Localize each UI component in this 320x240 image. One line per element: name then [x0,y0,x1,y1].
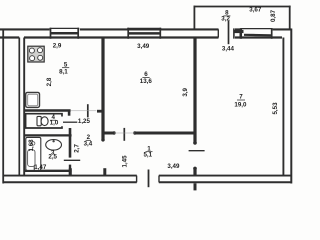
wall A kitchen/room6 divider [101,39,104,141]
bottom wall top line [3,175,291,177]
wall B end stub [68,111,71,116]
wall C room6 south left stub [103,132,114,135]
WC door dash [63,121,77,123]
room6 door tick [123,128,125,141]
right wall outer line [290,29,292,184]
left wall inner double lines [18,38,20,177]
stove [28,46,44,62]
balcony door tick [228,21,230,44]
svg-text:3,9: 3,9 [182,87,189,96]
svg-text:2,9: 2,9 [53,43,62,50]
svg-text:1,47: 1,47 [34,164,47,171]
wall D lower segment [193,168,196,177]
toilet [37,116,41,125]
svg-text:5,1: 5,1 [143,152,152,159]
bathroom door dash [64,159,80,161]
wall C room6 south main [135,132,195,135]
balcony left wall [193,6,195,29]
room7 window [241,28,272,39]
bathtub [26,137,41,170]
wall D gap end caps [193,141,197,145]
svg-text:8,1: 8,1 [59,69,68,76]
svg-text:1,0: 1,0 [50,120,59,127]
bathroom right wall upper segment [69,128,72,158]
bottom wall stub at wall A line [103,168,106,175]
room7 door dash [189,150,205,152]
svg-text:1,45: 1,45 [121,155,128,168]
svg-text:6: 6 [144,71,148,78]
svg-text:3,4: 3,4 [84,140,93,147]
svg-text:1,25: 1,25 [78,118,91,125]
bathroom bottom wall [24,170,71,172]
top wall inner line [0,36,282,38]
wall end caps at entrance door [136,176,138,183]
kitchen window [51,28,79,39]
svg-text:2,5: 2,5 [48,154,57,161]
svg-text:13,6: 13,6 [140,78,153,85]
dimension tick at 1,47 [33,166,35,171]
bottom wall bottom line [3,181,293,183]
kitchen door tick [87,104,89,117]
wall B kitchen south wall [24,109,70,112]
svg-text:3,67: 3,67 [249,7,262,14]
balcony right wall [289,6,291,29]
bottom wall stub at corridor [69,168,72,175]
wall A left stub [97,110,103,113]
balcony top wall [194,6,291,8]
wall piece between balcony door and window [234,28,240,38]
svg-text:19,0: 19,0 [234,102,247,109]
svg-text:2,8: 2,8 [46,77,53,86]
svg-text:3,49: 3,49 [137,43,150,50]
washbasin [46,140,62,151]
svg-text:3,2: 3,2 [221,15,230,22]
room6 window [128,28,160,39]
svg-text:0,87: 0,87 [270,9,277,22]
room6 door opening line [114,132,135,134]
top wall outer line [0,28,291,30]
bathroom right wall lower segment [69,165,71,176]
svg-text:2,7: 2,7 [74,144,81,153]
svg-text:1,68: 1,68 [28,139,35,152]
svg-text:7: 7 [239,94,243,101]
wall D rooms 6,1 / 7 divider upper [193,39,196,144]
right wall inner line [282,38,284,176]
bathroom top wall [24,134,71,136]
WC box walls [26,114,62,128]
wall A bottom end cap [101,138,104,141]
wall end cap at balcony door [217,29,219,37]
entrance door tick [148,170,150,188]
left wall outer line [2,29,4,184]
svg-text:5,53: 5,53 [272,102,279,115]
svg-text:3,44: 3,44 [222,45,235,52]
wall D stub below bottom wall [194,183,197,190]
wall C end caps [112,131,115,134]
kitchen sink [26,92,40,107]
kitchen door opening line [71,110,97,112]
svg-text:3,49: 3,49 [167,163,180,170]
